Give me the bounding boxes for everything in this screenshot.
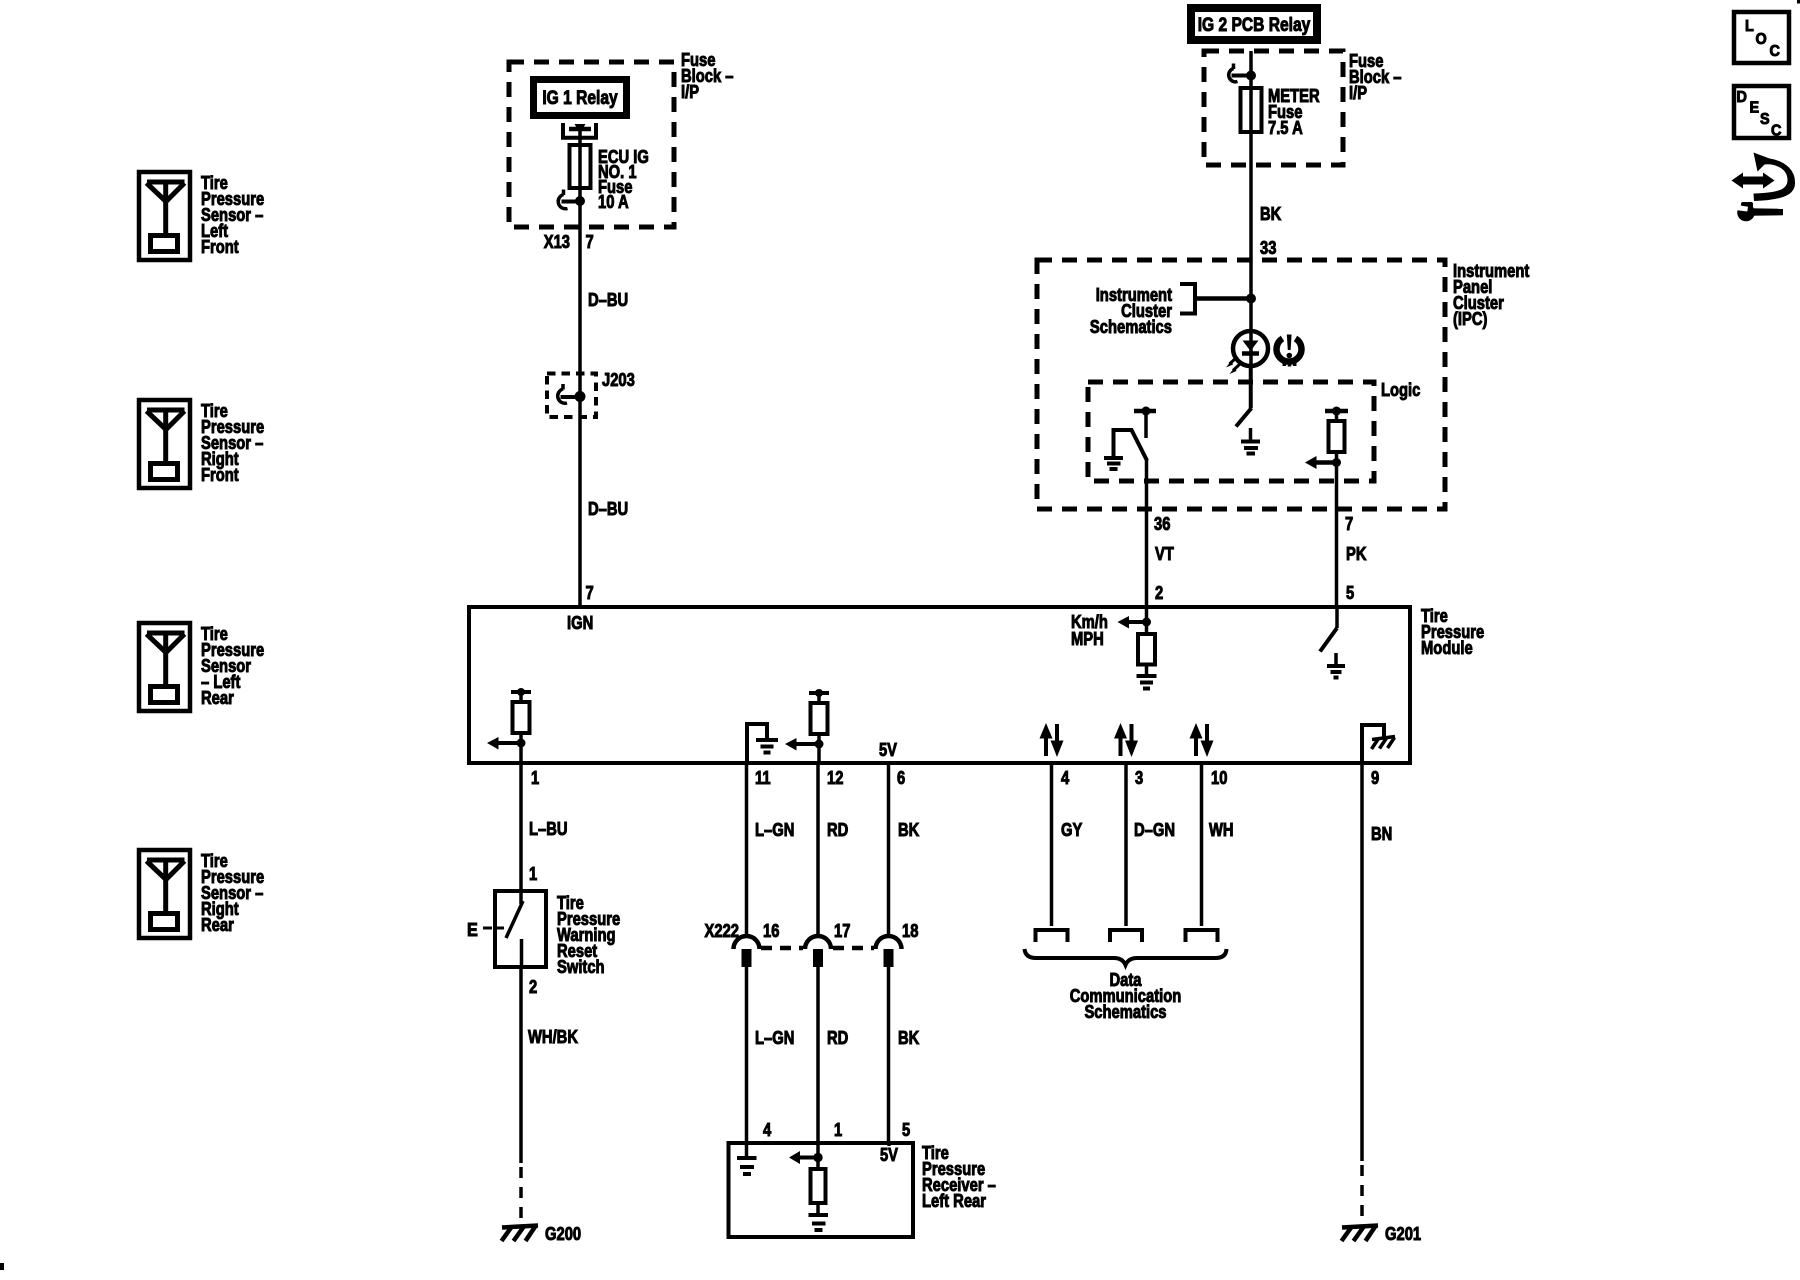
data link connector symbol at x=1051.5 [1036,930,1068,942]
internal: pin 1 pull-up resistor and output arrow [511,690,531,694]
LOC index box [1734,12,1789,63]
data link connector symbol at x=1126 [1110,930,1142,942]
splice J203 junction dot and hook [575,391,586,402]
svg-text:C: C [1770,43,1781,60]
svg-text:33: 33 [1260,238,1276,258]
wire BK feed (vertical) [1249,51,1253,408]
svg-text:Logic: Logic [1381,380,1420,400]
switch: Tire Pressure Warning Reset Switch box [495,891,546,967]
logic: output arrow on PK [1316,460,1337,465]
svg-text:2: 2 [529,977,537,997]
svg-text:16: 16 [763,921,779,941]
svg-text:I/P: I/P [681,82,699,102]
svg-text:E: E [467,920,478,940]
svg-text:PK: PK [1346,544,1367,564]
tire pressure warning icon [1277,339,1302,362]
svg-text:4: 4 [763,1120,771,1140]
wire VT (pin 36 to module pin 2) [1145,460,1149,607]
tire pressure sensor - right front [139,400,190,488]
svg-text:1: 1 [529,864,537,884]
connector X222 dashed link [761,946,803,951]
svg-text:Left Rear: Left Rear [922,1191,986,1211]
internal: bidirectional data arrows (pin at x=1051.5) [1044,737,1048,756]
internal: receiver pin 4 ground [745,1141,749,1156]
svg-text:D–BU: D–BU [588,499,628,519]
svg-text:Rear: Rear [201,915,234,935]
module box: Tire Pressure Module [469,607,1410,763]
svg-text:7: 7 [1345,514,1353,534]
svg-text:6: 6 [897,768,905,788]
svg-text:E: E [1750,100,1760,117]
data link connector symbol at x=1201.5 [1186,930,1218,942]
relay IG 1 Relay title box [534,80,627,116]
svg-text:Schematics: Schematics [1090,317,1172,337]
connector X222 terminal at x=888.5 [876,936,902,949]
fuse METER 7.5 A [1241,88,1262,132]
tire pressure sensor - right rear [139,850,190,938]
svg-text:BN: BN [1371,824,1392,844]
svg-text:IGN: IGN [567,613,593,633]
svg-text:Rear: Rear [201,688,234,708]
svg-text:Module: Module [1421,638,1473,658]
svg-text:9: 9 [1371,768,1379,788]
svg-text:(IPC): (IPC) [1453,309,1487,329]
svg-text:O: O [1756,31,1767,48]
svg-text:BK: BK [1260,204,1281,224]
svg-text:11: 11 [755,768,771,788]
connector X13 pin 7 (in-line) [575,196,585,206]
svg-text:X222: X222 [705,921,739,941]
connector X222 terminal at x=818 [805,936,831,949]
svg-text:G200: G200 [545,1224,581,1244]
ground G201 [1342,1226,1378,1228]
svg-text:17: 17 [834,921,850,941]
tire pressure sensor - left rear [139,623,190,711]
svg-text:7: 7 [586,232,594,252]
module box: Tire Pressure Receiver - Left Rear [729,1143,914,1237]
svg-text:RD: RD [827,820,848,840]
fuse ECU IG NO. 1 10 A [570,145,591,188]
svg-text:IG 2 PCB Relay: IG 2 PCB Relay [1198,15,1311,36]
svg-text:7.5 A: 7.5 A [1268,118,1303,138]
svg-text:L–GN: L–GN [755,820,794,840]
instrument panel cluster (IPC) dashed box [1037,260,1445,509]
svg-text:L–BU: L–BU [529,819,568,839]
logic: lamp driver switch to ground [1236,408,1252,427]
ground G200 [502,1226,538,1228]
svg-text:36: 36 [1154,514,1170,534]
svg-text:10 A: 10 A [598,192,629,212]
internal: receiver pin 1 resistor and arrow to ground [816,1141,820,1169]
svg-text:12: 12 [827,768,843,788]
wire WH/BK to G200 [519,967,523,1163]
bracket to instrument cluster schematics [1180,284,1195,314]
page corner marks [1797,0,1800,4]
switch arm and contacts [506,901,523,938]
svg-text:5V: 5V [879,740,897,760]
wire L-GN (pin 11) [745,765,749,936]
svg-text:Switch: Switch [557,957,605,977]
internal: receiver pin 5 stub [887,1141,891,1146]
svg-text:BK: BK [898,820,919,840]
svg-text:2: 2 [1155,583,1163,603]
internal: Km/h MPH speed input, resistor to ground [1145,607,1149,634]
internal: bidirectional data arrows (pin at x=1126) [1119,737,1123,756]
logic: speed signal switch (pin 36) [1134,409,1156,414]
svg-text:10: 10 [1211,768,1227,788]
svg-text:S: S [1760,111,1770,128]
LED light rays [1230,357,1238,365]
in-line connector at fuse block (IG2) [1246,71,1256,81]
svg-text:L: L [1745,18,1754,35]
logic: indicator request resistor (pin 7) [1325,409,1348,414]
svg-text:RD: RD [827,1028,848,1048]
wire GY (pin 4) [1050,765,1054,926]
svg-text:BK: BK [898,1028,919,1048]
svg-text:X13: X13 [544,232,570,252]
svg-text:D: D [1737,89,1747,106]
svg-text:WH/BK: WH/BK [528,1027,578,1047]
svg-text:GY: GY [1061,820,1082,840]
relay IG 2 PCB Relay title box [1191,8,1317,40]
internal: pin 11 ground [747,724,767,763]
indicator LED (tire pressure warning lamp) [1233,331,1268,366]
svg-text:Schematics: Schematics [1084,1002,1166,1022]
wire L-BU pin 1 to reset switch [519,765,523,904]
svg-text:G201: G201 [1385,1224,1421,1244]
fuse block - I/P (IG1) dashed box [509,62,674,227]
svg-text:D–BU: D–BU [588,290,628,310]
svg-text:L–GN: L–GN [755,1028,794,1048]
wire BN (pin 9) to G201 [1360,765,1364,1161]
DESC index box [1734,86,1789,138]
svg-text:18: 18 [902,921,918,941]
svg-text:IG 1 Relay: IG 1 Relay [542,88,618,109]
connector X222 terminal at x=746.5 [734,936,760,949]
wire PK (pin 7 to module pin 5) [1335,452,1339,607]
svg-text:MPH: MPH [1071,629,1104,649]
wire WH (pin 10) [1200,765,1204,926]
wire LED to logic switch [1249,366,1253,408]
internal: pin 5 switch to ground [1335,607,1339,628]
svg-text:1: 1 [531,768,539,788]
wire IGN feed (vertical) [578,129,582,605]
svg-text:3: 3 [1135,768,1143,788]
svg-text:Front: Front [201,237,239,257]
wire RD (pin 12) [816,765,820,936]
svg-text:C: C [1771,123,1782,140]
svg-text:WH: WH [1209,820,1234,840]
svg-text:1: 1 [834,1120,842,1140]
relay contact IG 1 [563,123,596,138]
svg-text:5V: 5V [880,1145,898,1165]
svg-text:J203: J203 [602,370,635,390]
wire D-GN (pin 3) [1124,765,1128,926]
svg-text:7: 7 [586,583,594,603]
svg-text:4: 4 [1061,768,1069,788]
brace for data communication schematics [1025,949,1227,965]
svg-text:5: 5 [902,1120,910,1140]
navigation icon: double arrow, curved arrow, wrench [1742,177,1764,185]
svg-text:5: 5 [1346,583,1354,603]
svg-text:Front: Front [201,465,239,485]
wire BK (pin 6) [887,765,891,936]
internal: pin 12 pull-up resistor and output arrow [809,691,829,695]
svg-text:VT: VT [1155,544,1174,564]
splice J203 dashed box [547,374,596,418]
tire pressure sensor - left front [139,172,190,260]
logic dashed box [1088,382,1374,481]
internal: pin 9 chassis ground [1362,725,1384,763]
internal: bidirectional data arrows (pin at x=1201.5) [1194,737,1198,756]
svg-text:I/P: I/P [1349,83,1367,103]
svg-text:D–GN: D–GN [1134,820,1175,840]
fuse block - I/P (IG2) dashed box [1204,51,1343,165]
